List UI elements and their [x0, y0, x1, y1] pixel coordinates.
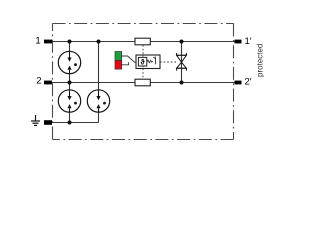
svg-text:1′: 1′ — [245, 36, 252, 47]
svg-text:1: 1 — [35, 36, 40, 47]
svg-text:2: 2 — [36, 76, 41, 87]
svg-text:2′: 2′ — [245, 77, 252, 88]
svg-text:protected: protected — [256, 44, 265, 77]
